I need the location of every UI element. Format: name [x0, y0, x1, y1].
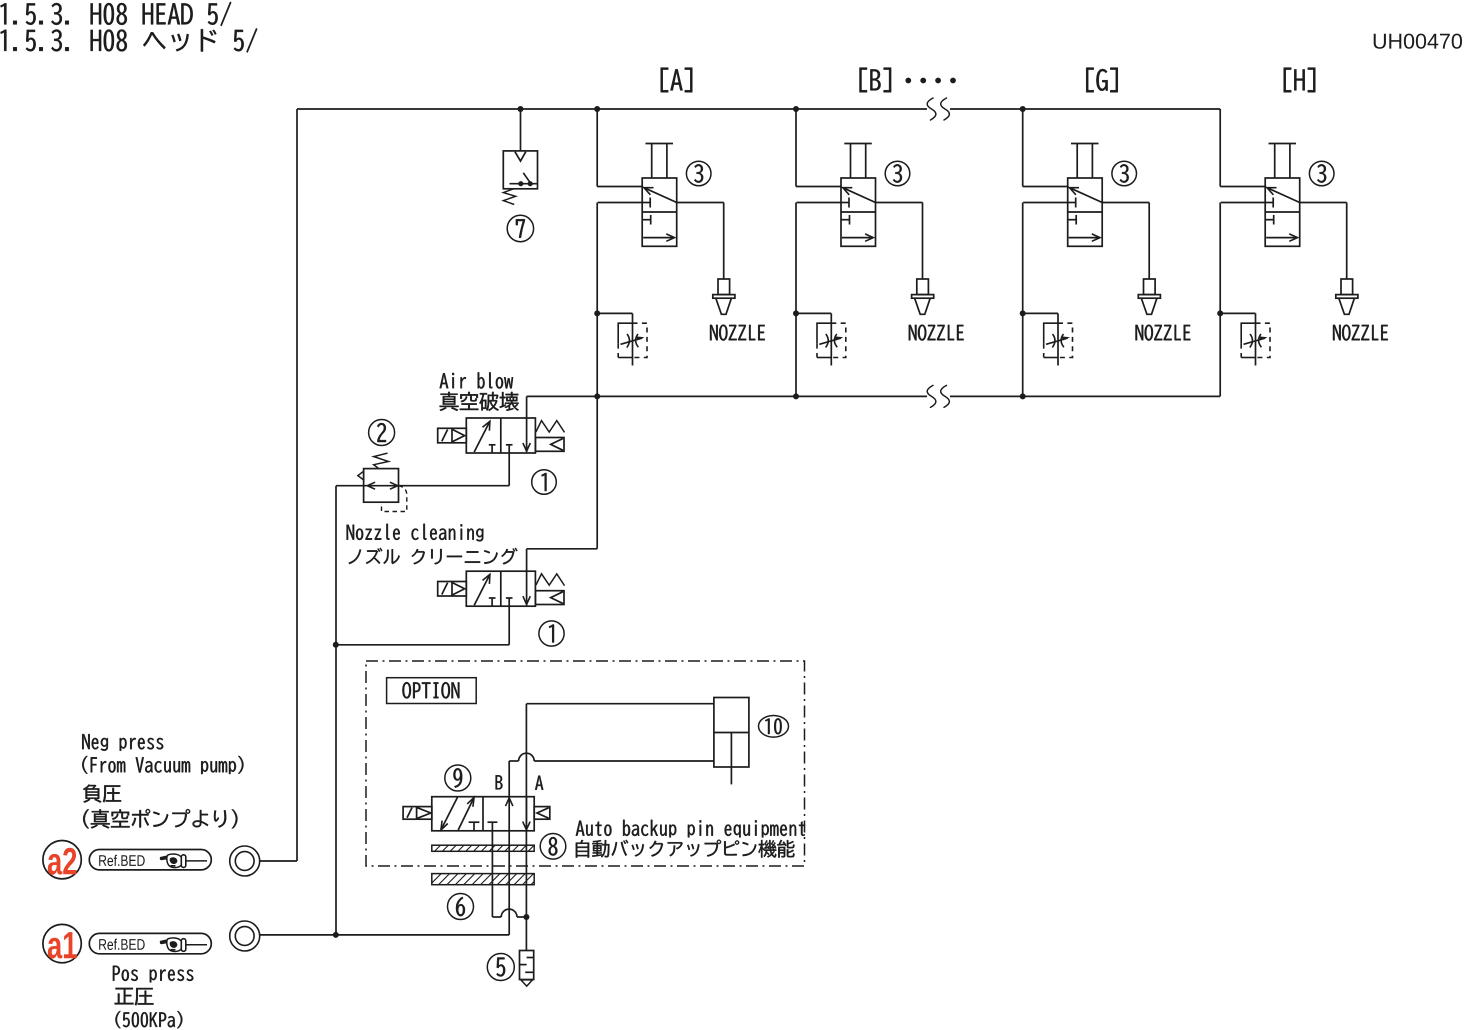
wire: air blow valve outlet stem	[508, 445, 510, 486]
wire: valve [B] output to nozzle	[876, 202, 923, 204]
wire: a1 pos press line	[260, 934, 510, 936]
label 自動バックアップピン機能	[576, 840, 795, 858]
junction dots on bottom bus	[594, 393, 600, 399]
junction dots on top bus	[518, 106, 524, 112]
valve 3 [B] plunger actuator	[844, 143, 872, 145]
valve 3 [A] diagonal flow path	[644, 188, 677, 203]
wire: valve 9 T port line down	[491, 831, 493, 917]
label (From Vacuum pump)	[82, 756, 243, 774]
label circle 1 (nozzle cleaning)	[539, 621, 564, 646]
wire: flow-control branch [B]	[796, 312, 831, 314]
label circle 3 [A]	[686, 161, 711, 186]
valve 3 [B] blocked port upper	[841, 202, 849, 204]
nozzle cleaning valve 1	[466, 571, 535, 606]
label NOZZLE [H]	[1333, 325, 1388, 341]
label Pos press	[113, 966, 193, 983]
valve 3 [H] diagonal flow path	[1267, 188, 1300, 203]
flow control valve [A]	[618, 323, 632, 343]
wire: bus to valve [B] inlet	[795, 109, 797, 187]
valve 9 body	[432, 797, 534, 831]
bus break squiggle (top)	[927, 98, 936, 120]
valve 3 [G] blocked port lower	[1068, 219, 1077, 221]
valve 3 [H] blocked port upper	[1265, 202, 1273, 204]
wire: bus to pressure switch	[520, 109, 522, 151]
pressure switch 7	[503, 151, 537, 189]
wire: B supply riser	[508, 761, 510, 797]
label circle 2	[369, 420, 395, 446]
wire: riser pilot line [B]	[797, 202, 842, 204]
nozzle symbol [G]	[1144, 279, 1156, 295]
OPTION label box	[387, 678, 477, 704]
wire: regulator left riser	[335, 486, 337, 935]
label circle 3 [G]	[1112, 161, 1137, 186]
silencer 5	[520, 951, 534, 980]
wire: A/T collector to silencer	[492, 916, 501, 918]
wire: bottom bus to nozzle cleaning valve	[596, 396, 598, 548]
wire: riser pilot line [H]	[1221, 202, 1266, 204]
label Auto backup pin equipment	[576, 820, 805, 838]
label circle 9	[445, 765, 471, 791]
wire: bus to valve [G] inlet	[1022, 109, 1024, 187]
a2 port circle	[230, 846, 260, 876]
title line 2 (Japanese)	[1, 28, 258, 52]
flow control valve [H]	[1241, 323, 1255, 343]
label (500KPa)	[115, 1011, 182, 1028]
label 真空破壊	[440, 392, 519, 411]
valve 3 [H] blocked port lower	[1265, 219, 1274, 221]
wire: left riser [G]	[1022, 203, 1024, 397]
junction dot flow-control [H]	[1217, 310, 1223, 316]
a1 port circle	[230, 921, 260, 951]
wire: flow-control branch [A]	[597, 312, 632, 314]
regulator 2	[374, 453, 389, 468]
flow control valve [G]	[1044, 323, 1058, 343]
junction dot pos-press line	[333, 932, 339, 938]
label OPTION	[402, 682, 459, 698]
junction dot flow-control [A]	[594, 310, 600, 316]
dots after [B]	[905, 78, 911, 84]
junction dot flow-control [G]	[1020, 310, 1026, 316]
valve 3 [G] plunger actuator	[1071, 143, 1099, 145]
valve 3 [A] body	[642, 178, 677, 246]
a2 reference marker	[43, 841, 81, 879]
label NOZZLE [A]	[710, 325, 765, 341]
valve 3 [B] blocked port lower	[841, 219, 850, 221]
wire: flow-control branch [G]	[1023, 312, 1058, 314]
label Nozzle cleaning	[347, 524, 484, 542]
label circle 8	[540, 834, 566, 860]
wire: valve [A] output to nozzle	[677, 202, 724, 204]
header [G]	[1086, 68, 1118, 93]
label Air blow	[440, 372, 513, 388]
label 負圧	[83, 784, 121, 802]
valve 3 [A] blocked port lower	[642, 219, 651, 221]
label B port	[496, 775, 503, 789]
nozzle symbol [A]	[718, 279, 730, 295]
wire: valve B-line to cylinder rod end	[509, 760, 518, 762]
wire: riser pilot line [A]	[598, 202, 643, 204]
label circle 1 (air blow)	[532, 470, 557, 495]
label circle 5	[487, 954, 514, 981]
valve 3 [H] body	[1265, 178, 1300, 246]
drawing number UH00470	[1374, 34, 1462, 49]
header [H]	[1284, 68, 1316, 93]
label NOZZLE [G]	[1136, 325, 1191, 341]
wire: left riser [B]	[795, 203, 797, 397]
neg press bus (top)	[297, 108, 927, 110]
valve 3 [G] blocked port upper	[1068, 202, 1076, 204]
label 正圧	[115, 988, 154, 1006]
valve 3 [H] plunger actuator	[1269, 143, 1297, 145]
wire: valve A-line to cylinder cap end	[525, 704, 527, 917]
wire: flow-control branch [H]	[1220, 312, 1255, 314]
air blow valve 1	[466, 418, 535, 453]
valve 3 [B] body	[841, 178, 876, 246]
title line 1	[1, 2, 232, 26]
valve 3 [G] diagonal flow path	[1070, 188, 1103, 203]
valve 3 [A] blocked port upper	[642, 202, 650, 204]
wire: bus to valve [A] inlet	[596, 109, 598, 187]
a1 reference marker	[43, 924, 81, 962]
junction dot flow-control [B]	[793, 310, 799, 316]
valve 3 [A] lower flow arrow	[643, 237, 674, 239]
OPTION boundary box (dash-dot)	[366, 661, 805, 866]
bus break squiggle (bottom)	[927, 385, 936, 407]
wire: valve [G] output to nozzle	[1102, 202, 1149, 204]
wire: air blow valve to bottom bus	[526, 396, 528, 418]
label circle 3 [H]	[1309, 161, 1334, 186]
wire: left riser [A]	[596, 203, 598, 397]
wire: bus to valve [H] inlet	[1219, 109, 1221, 187]
valve 3 [G] body	[1068, 178, 1103, 246]
label circle 7	[507, 215, 533, 241]
label NOZZLE [B]	[909, 325, 964, 341]
header [A]	[661, 68, 693, 93]
valve 3 [B] lower flow arrow	[842, 237, 873, 239]
valve 3 [H] lower flow arrow	[1266, 237, 1297, 239]
valve 3 [B] diagonal flow path	[843, 188, 876, 203]
cylinder 10	[714, 698, 749, 768]
label ノズル クリーニング	[349, 548, 518, 565]
valve 3 [G] lower flow arrow	[1069, 237, 1100, 239]
wire: riser pilot line [G]	[1023, 202, 1067, 204]
nozzle symbol [H]	[1341, 279, 1353, 295]
pos press sub-bus (bottom)	[597, 395, 927, 397]
nozzle symbol [B]	[917, 279, 929, 295]
wire: left riser [H]	[1219, 203, 1221, 397]
junction dot nozzle-clean return	[333, 642, 339, 648]
wire: nozzle cleaning outlet to return line	[508, 598, 510, 645]
label (真空ポンプより)	[83, 809, 237, 829]
wire: valve [H] output to nozzle	[1300, 202, 1347, 204]
header [B]	[860, 68, 892, 93]
label circle 6	[448, 894, 474, 920]
flow control valve [B]	[817, 323, 831, 343]
label Neg press	[82, 734, 163, 751]
valve 3 [A] plunger actuator	[646, 143, 674, 145]
label A port	[535, 776, 543, 790]
label circle 10	[759, 716, 789, 738]
wire: a2 to top bus	[260, 860, 297, 862]
label circle 3 [B]	[885, 161, 910, 186]
